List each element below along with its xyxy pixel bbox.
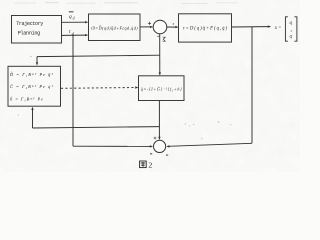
block B1 Trajectory Planning xyxy=(12,16,62,44)
label qd xyxy=(69,29,74,36)
svg-text:Ĉ = Γ₂Bᵐᵀ Pe q̇ᵀ: Ĉ = Γ₂Bᵐᵀ Pe q̇ᵀ xyxy=(10,84,53,89)
wire error tap to B4 bottom xyxy=(31,107,159,128)
wire q̈d: B1 to B2 top xyxy=(62,21,89,23)
svg-text:q: q xyxy=(69,14,72,20)
state vector [q;q'] xyxy=(285,17,297,41)
sigma mark below S1 xyxy=(157,36,165,41)
svg-text:2: 2 xyxy=(148,161,152,170)
label tau xyxy=(172,21,174,26)
wire qd feedforward down to S2 left xyxy=(73,35,153,147)
svg-text:D̂ = Γ₁Bᵐᵀ Pe q̅ᵀ: D̂ = Γ₁Bᵐᵀ Pe q̅ᵀ xyxy=(9,72,53,77)
wire tau tap to B4 top xyxy=(36,55,160,65)
block B3 robot dynamics xyxy=(179,14,232,42)
dashed wire B4 to B5 xyxy=(61,86,138,88)
minus marks at S2 xyxy=(150,153,168,155)
output wire from B3 xyxy=(232,25,272,27)
svg-text:q̈=-[I+Ĝ]⁻¹[f₂+h]: q̈=-[I+Ĝ]⁻¹[f₂+h] xyxy=(141,86,182,91)
svg-text:Trajectory: Trajectory xyxy=(16,21,43,27)
block B4 adaptation laws xyxy=(8,66,61,106)
block B2 inverse dynamics xyxy=(89,14,141,41)
wire B2 to summing junction S1 xyxy=(140,26,153,28)
label q̈d xyxy=(69,11,75,20)
wire S1 to B3 with label tau xyxy=(167,26,179,28)
caption 图 2 xyxy=(140,161,153,170)
block B5 forward dynamics xyxy=(139,76,185,101)
summing junction S2 xyxy=(154,140,166,152)
svg-text:τ=D(q)q̈+F(q,q̇): τ=D(q)q̈+F(q,q̇) xyxy=(183,27,227,32)
plus sign at S2 top input xyxy=(154,137,157,140)
node: tap on qd wire xyxy=(72,34,74,36)
plus sign at S1 left input xyxy=(148,22,151,25)
bleed-through noise top strip xyxy=(14,2,238,4)
svg-text:d: d xyxy=(73,17,75,21)
svg-text:ĥ = Γ₃Bᵐᵀ Pe: ĥ = Γ₃Bᵐᵀ Pe xyxy=(10,97,43,102)
wire qd: B1 to B2 bottom xyxy=(62,34,89,36)
wire B5 output down to S2 xyxy=(158,101,160,141)
scan speckles xyxy=(18,56,232,139)
feedback wire: output down right side to S2 xyxy=(166,27,252,148)
summing junction S1 xyxy=(153,20,167,34)
svg-text:Planning: Planning xyxy=(18,31,40,37)
wire S1 output down to B5 xyxy=(159,34,161,76)
label x = xyxy=(274,25,282,31)
